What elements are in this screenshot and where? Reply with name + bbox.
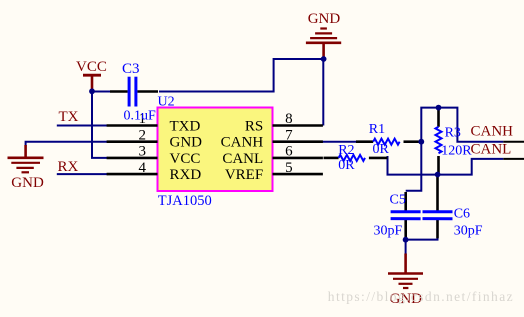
- svg-text:RXD: RXD: [170, 167, 202, 183]
- svg-text:U2: U2: [158, 95, 175, 110]
- svg-text:120R: 120R: [441, 144, 472, 159]
- capacitor C5 plates: [391, 210, 421, 213]
- svg-text:CANL: CANL: [222, 151, 263, 167]
- junction dot R1 out / CANH node: [418, 139, 424, 145]
- power port VCC symbol: [83, 74, 101, 77]
- wire C3 right to corner up to top GND node: [159, 59, 324, 92]
- svg-text:TX: TX: [59, 109, 79, 125]
- wire VCC down to pin 3: [92, 91, 108, 158]
- svg-text:RS: RS: [245, 119, 263, 135]
- svg-text:2: 2: [139, 127, 147, 143]
- svg-text:CANH: CANH: [471, 124, 514, 140]
- pin 7 stub: [273, 140, 323, 143]
- ground symbol left: [8, 145, 44, 172]
- svg-text:TJA1050: TJA1050: [158, 193, 212, 209]
- IC U2 body: [158, 108, 273, 192]
- svg-text:R3: R3: [445, 126, 461, 141]
- capacitor C3 plates: [128, 77, 131, 107]
- wire top GND node down to pin 8: [322, 59, 324, 126]
- pin 3 stub: [107, 157, 158, 160]
- svg-text:GND: GND: [11, 175, 44, 191]
- junction dot top GND node: [321, 56, 327, 62]
- junction dot R3 bottom / C6 top: [435, 172, 441, 178]
- resistor R2 zigzag: [339, 155, 365, 161]
- junction dot C5/C6 bottom GND node: [403, 237, 409, 243]
- pin 4 stub: [107, 173, 158, 176]
- resistor R2 pins: [324, 157, 339, 160]
- svg-text:https://blog.csdn.net/finhaz: https://blog.csdn.net/finhaz: [328, 289, 514, 304]
- wire CANH black end segment: [503, 141, 524, 143]
- svg-text:GND: GND: [308, 11, 341, 27]
- svg-text:6: 6: [285, 144, 293, 160]
- svg-text:7: 7: [285, 127, 293, 143]
- wire left GND to pin 2: [26, 142, 108, 146]
- svg-text:0R: 0R: [373, 142, 390, 157]
- svg-text:C5: C5: [390, 193, 406, 208]
- svg-text:R1: R1: [369, 122, 385, 137]
- wire RX to pin 4: [57, 173, 108, 175]
- ground symbol bottom: [388, 254, 423, 289]
- wire CANL black end segment: [503, 158, 524, 160]
- svg-text:CANH: CANH: [221, 135, 264, 151]
- pin 1 stub: [107, 124, 158, 127]
- resistor R1 zigzag: [373, 139, 399, 145]
- pin 8 stub: [273, 124, 323, 127]
- svg-text:3: 3: [139, 144, 147, 160]
- svg-text:5: 5: [285, 160, 293, 176]
- resistor R3 pins: [437, 109, 440, 127]
- svg-text:RX: RX: [58, 159, 79, 175]
- svg-text:CANL: CANL: [471, 142, 512, 158]
- wire R1 out to CANH node vertical: [417, 141, 421, 143]
- pin 6 stub: [273, 157, 323, 160]
- svg-text:30pF: 30pF: [454, 223, 483, 238]
- svg-text:GND: GND: [170, 135, 203, 151]
- capacitor C6 plates: [423, 210, 453, 213]
- capacitor C5 pins: [404, 192, 407, 211]
- junction dot VCC/C3: [89, 88, 95, 94]
- svg-text:VREF: VREF: [225, 167, 263, 183]
- svg-text:VCC: VCC: [76, 59, 107, 75]
- wire TX to pin 1: [57, 125, 108, 127]
- wire R2 out down and right to CANL: [388, 156, 504, 175]
- svg-text:C3: C3: [122, 61, 140, 77]
- svg-text:30pF: 30pF: [374, 223, 403, 238]
- capacitor C6 pins: [436, 176, 439, 211]
- wire pin 7 to R1: [321, 141, 359, 143]
- wire C5 bottom down to GND: [405, 237, 407, 255]
- wire CANH node vertical (C5 branch to top wire): [406, 108, 504, 191]
- wire C6 bottom to C5 bottom node: [406, 237, 438, 240]
- capacitor C3 pins: [110, 90, 128, 93]
- svg-text:0R: 0R: [338, 158, 355, 173]
- svg-text:VCC: VCC: [170, 151, 201, 167]
- svg-text:C6: C6: [454, 207, 470, 222]
- svg-text:0.1uF: 0.1uF: [124, 109, 157, 124]
- resistor R1 pins: [356, 140, 373, 143]
- pin 2 stub: [107, 140, 158, 143]
- resistor R3 zigzag: [436, 127, 442, 153]
- wire VCC junction to C3: [91, 91, 112, 93]
- svg-text:R2: R2: [338, 143, 354, 158]
- junction dot R3 top: [436, 105, 442, 111]
- svg-text:4: 4: [139, 160, 147, 176]
- ground symbol top (inverted): [306, 29, 341, 60]
- pin 5 stub: [273, 173, 323, 176]
- svg-text:8: 8: [285, 111, 293, 127]
- svg-text:TXD: TXD: [170, 119, 201, 135]
